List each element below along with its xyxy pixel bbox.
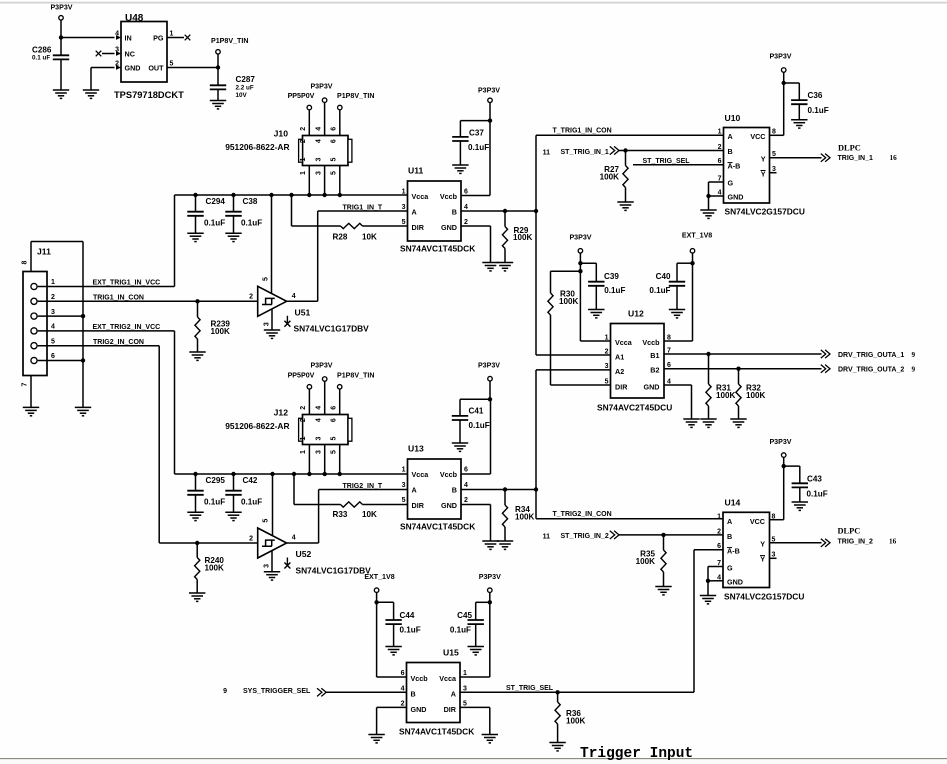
svg-text:SN74LVC1G17DBV: SN74LVC1G17DBV	[296, 565, 372, 575]
wire R29 bottom lead	[504, 249, 506, 263]
svg-text:100K: 100K	[600, 173, 620, 182]
wire P3P3V stem above U14	[783, 458, 785, 467]
wire P3P3V to U12.Vcca	[579, 253, 581, 341]
page bottom border	[0, 758, 947, 760]
svg-text:TRIG2_IN_CON: TRIG2_IN_CON	[93, 339, 144, 346]
junction R36 on ST_TRIG_SEL	[555, 690, 559, 694]
svg-text:5: 5	[402, 219, 406, 226]
svg-text:9: 9	[223, 688, 227, 695]
svg-text:1: 1	[300, 437, 307, 441]
wire T_TRIG1_IN_CON riser to U12.A1	[535, 135, 537, 355]
wire U12.A2 stub	[536, 369, 611, 371]
wire U14.VCC stub	[770, 519, 784, 521]
svg-text:6: 6	[331, 418, 338, 422]
svg-text:6: 6	[331, 406, 338, 410]
svg-text:Vcca: Vcca	[615, 338, 633, 347]
power symbol P3P3V above U12	[578, 249, 583, 254]
wire TRIG2_IN_CON horizontal	[38, 345, 160, 347]
wire C287 to ground	[217, 90, 219, 101]
ground under C42	[225, 512, 241, 520]
junction R28 riser on bus	[289, 193, 293, 197]
svg-text:5: 5	[51, 338, 55, 345]
svg-text:A1: A1	[615, 352, 624, 361]
junction C42 on bus	[231, 472, 235, 476]
buffer U52 triangle	[258, 528, 287, 558]
svg-text:3: 3	[264, 322, 271, 326]
wire PP5P0V to J12.2	[308, 389, 310, 414]
svg-text:5: 5	[331, 158, 338, 162]
svg-text:4: 4	[292, 293, 296, 300]
svg-text:2: 2	[300, 418, 307, 422]
wire TRIG2_IN_T horizontal	[319, 489, 408, 491]
svg-text:G: G	[728, 179, 734, 188]
wire U12.Vccb stub	[664, 340, 693, 342]
wire U48.GND down	[90, 68, 92, 91]
no-connect X on U52	[284, 558, 290, 569]
capacitor C37	[452, 137, 468, 141]
svg-text:1: 1	[300, 158, 307, 162]
schmitt symbol U51	[262, 298, 275, 304]
capacitor C287	[210, 85, 226, 89]
wire R240 top lead	[196, 543, 198, 558]
pin circle 3 J11	[31, 313, 37, 319]
junction J10 pin 5 on bus	[338, 193, 342, 197]
capacitor C38	[225, 212, 241, 216]
wire U15.Vccb stub	[377, 676, 407, 678]
svg-text:100K: 100K	[566, 717, 586, 726]
connector J12 body	[299, 415, 352, 445]
ground under R240	[189, 593, 205, 601]
junction R32 on B2	[736, 367, 740, 371]
wire TRIG1_IN_T riser	[317, 211, 319, 301]
wire P3P3V stem	[60, 20, 62, 37]
svg-text:DIR: DIR	[412, 501, 425, 510]
junction C295 on bus	[193, 472, 197, 476]
regulator U48 body	[121, 22, 167, 83]
svg-text:0.1uF: 0.1uF	[450, 626, 471, 635]
svg-text:PP5P0V: PP5P0V	[288, 92, 315, 100]
svg-text:2: 2	[300, 406, 307, 410]
svg-text:P3P3V: P3P3V	[569, 233, 591, 241]
svg-text:6: 6	[331, 127, 338, 131]
wire J11 pin3 to ground riser	[38, 315, 83, 317]
junction R239 on TRIG1_IN_CON	[195, 299, 199, 303]
power symbol P3P3V above U15	[488, 588, 493, 593]
wire U14.G to GND	[707, 567, 709, 581]
wire EXT_TRIG1_IN_VCC riser	[174, 195, 176, 287]
wire C295 to ground	[195, 495, 197, 512]
svg-text:DIR: DIR	[444, 705, 457, 714]
svg-text:TRIG1_IN_CON: TRIG1_IN_CON	[93, 294, 144, 301]
svg-text:ST_TRIG_SEL: ST_TRIG_SEL	[643, 158, 691, 165]
wire U12.A1 stub	[536, 354, 611, 356]
svg-text:0.1uF: 0.1uF	[241, 219, 262, 228]
wire C45 to ground	[475, 624, 477, 646]
svg-text:GND: GND	[125, 64, 141, 73]
wire P1P8V_TIN to J12.6	[339, 389, 341, 414]
svg-text:SYS_TRIGGER_SEL: SYS_TRIGGER_SEL	[243, 688, 311, 695]
svg-text:P3P3V: P3P3V	[478, 87, 500, 95]
svg-text:100K: 100K	[746, 391, 766, 400]
wire T_TRIG2_IN_CON riser	[535, 370, 537, 519]
wire P3P3V stem to junction C41	[489, 381, 491, 399]
svg-text:1: 1	[402, 188, 406, 195]
capacitor C36	[791, 100, 807, 104]
wire T_TRIG2_IN_CON	[536, 518, 723, 520]
wire R27 bottom lead	[625, 188, 627, 203]
ground under C295	[187, 512, 203, 520]
junction U52 pin5 on bus	[270, 472, 274, 476]
svg-text:5: 5	[331, 437, 338, 441]
pin circle 4 J11	[31, 328, 37, 334]
ground under U51	[264, 330, 280, 338]
wire R30 lead to DIR pin	[551, 384, 611, 386]
svg-text:Y: Y	[761, 154, 766, 163]
junction T_TRIG1_IN_CON riser	[534, 209, 538, 213]
wire SYS_TRIGGER_SEL to U15.B	[326, 691, 406, 693]
overline on A-B U10	[728, 162, 733, 164]
junction P1P8V_TIN/C287	[216, 65, 220, 69]
svg-text:5: 5	[605, 378, 609, 385]
wire U48.OUT to P1P8V_TIN	[167, 67, 218, 69]
power symbol P1P8V_TIN above J12	[337, 385, 342, 390]
page top border	[0, 2, 947, 4]
wire to C40	[677, 262, 693, 264]
wire bus to U52 pin5	[272, 474, 274, 536]
svg-text:C41: C41	[469, 407, 484, 416]
wire U51 output	[287, 300, 318, 302]
svg-text:Trigger Input: Trigger Input	[580, 746, 693, 762]
junction U51 pin5 on bus	[269, 193, 273, 197]
svg-text:C40: C40	[656, 272, 671, 281]
junction C38 on bus	[231, 193, 235, 197]
ground under R32	[730, 419, 746, 427]
svg-text:Vcca: Vcca	[412, 470, 430, 479]
wire U10.G to GND	[708, 182, 710, 196]
svg-text:10K: 10K	[362, 233, 377, 242]
wire C43 to ground	[799, 488, 801, 503]
svg-text:5: 5	[331, 171, 338, 175]
svg-text:A: A	[727, 517, 732, 526]
wire U11.B to riser	[461, 210, 536, 212]
svg-text:ST_TRIG_IN_2: ST_TRIG_IN_2	[561, 533, 609, 540]
pin arrow U48.GND	[116, 65, 121, 70]
schmitt symbol U52	[262, 540, 275, 546]
svg-text:C37: C37	[469, 129, 484, 138]
svg-text:C44: C44	[400, 611, 415, 620]
svg-text:3: 3	[402, 204, 406, 211]
svg-text:16: 16	[889, 538, 897, 546]
IC U15 body	[407, 663, 461, 723]
wire R36 top lead	[557, 692, 559, 702]
capacitor C41	[452, 416, 468, 420]
ground under U15.DIR	[482, 735, 498, 743]
wire J11 ground riser	[82, 242, 84, 408]
ground under U13.GND	[482, 541, 498, 549]
overline on Ybar U10	[761, 170, 766, 172]
svg-text:4: 4	[401, 685, 405, 692]
wire U13.Vccb stub	[461, 473, 491, 475]
junction C40 tap	[690, 261, 694, 265]
wire C294 to ground	[195, 216, 197, 233]
wire C41 top lead	[459, 399, 461, 416]
svg-text:DRV_TRIG_OUTA_2: DRV_TRIG_OUTA_2	[838, 367, 904, 374]
svg-text:J12: J12	[274, 408, 289, 418]
svg-text:3: 3	[315, 171, 322, 175]
ground under U52	[264, 572, 280, 580]
wire R240 bottom lead	[196, 580, 198, 594]
no-connect X on U48.NC	[96, 51, 102, 57]
svg-text:0.1uF: 0.1uF	[241, 498, 262, 507]
wire U10.Ybar stub	[770, 172, 777, 174]
junction C39 tap	[578, 261, 582, 265]
resistor R33	[341, 502, 363, 507]
svg-text:DRV_TRIG_OUTA_1: DRV_TRIG_OUTA_1	[838, 352, 904, 359]
svg-text:B: B	[727, 532, 732, 541]
junction C44 tap	[374, 600, 378, 604]
ground under C43	[792, 502, 808, 510]
wire ST_TRIG_SEL from U15.A	[460, 691, 694, 693]
wire U12.B2 to DRV_TRIG_OUTA_2	[664, 368, 822, 370]
svg-text:P3P3V: P3P3V	[769, 438, 791, 446]
svg-text:7: 7	[22, 382, 29, 386]
junction U10.G/GND	[706, 194, 710, 198]
svg-text:0.1uF: 0.1uF	[204, 498, 225, 507]
wire U52 pin3 to ground	[271, 551, 273, 572]
ground under R36	[549, 743, 565, 751]
svg-text:SN74LVC2G157DCU: SN74LVC2G157DCU	[725, 207, 805, 217]
svg-text:6: 6	[667, 362, 671, 369]
svg-text:1: 1	[463, 670, 467, 677]
svg-text:A2: A2	[615, 367, 624, 376]
junction T_TRIG2 riser / U13.B	[534, 487, 538, 491]
wire EXT_TRIG1_IN_VCC	[38, 286, 175, 288]
junction J11 pin3	[81, 314, 85, 318]
wire C42 to ground	[233, 495, 235, 512]
wire C37 to ground	[459, 141, 461, 165]
svg-text:16: 16	[890, 154, 898, 162]
svg-text:C42: C42	[243, 476, 258, 485]
power symbol P3P3V above J10	[322, 98, 327, 103]
power symbol P1P8V_TIN above J10	[338, 105, 343, 110]
wire J10 pin 3 to bus	[324, 166, 326, 196]
svg-text:T_TRIG1_IN_CON: T_TRIG1_IN_CON	[553, 128, 612, 135]
svg-text:0.1uF: 0.1uF	[400, 626, 421, 635]
wire to C287	[217, 68, 219, 86]
overline on A-B U14	[727, 547, 732, 549]
wire EXT_1V8 to U12.Vccb	[692, 253, 694, 341]
svg-text:P3P3V: P3P3V	[478, 361, 500, 369]
svg-text:B: B	[452, 207, 457, 216]
pin arrow U48.IN	[116, 35, 121, 40]
ground under R239	[189, 352, 205, 360]
svg-text:11: 11	[543, 533, 551, 540]
svg-text:6: 6	[401, 670, 405, 677]
ground under U14	[700, 596, 716, 604]
svg-text:P3P3V: P3P3V	[310, 362, 332, 370]
ground under R34	[497, 541, 513, 549]
resistor R28	[341, 223, 363, 228]
wire J11 pin6 to ground riser	[38, 360, 83, 362]
svg-text:100K: 100K	[205, 564, 225, 573]
no-connect X on U51	[284, 316, 290, 327]
power symbol EXT_1V8 above U15	[374, 588, 379, 593]
svg-text:C43: C43	[807, 475, 822, 484]
wire C44 to ground	[393, 624, 395, 646]
wire U15.GND down	[376, 707, 378, 734]
no-connect X on U48.PG	[185, 35, 191, 41]
svg-text:P1P8V_TIN: P1P8V_TIN	[211, 37, 248, 45]
wire bus EXT_TRIG2_IN_VCC	[175, 473, 408, 475]
wire J12 pin 5 to bus	[339, 445, 341, 475]
wire EXT_1V8 to U15.Vccb	[376, 593, 378, 677]
junction J12 pin 1 on bus	[307, 472, 311, 476]
resistor R29	[502, 227, 507, 249]
svg-text:4: 4	[316, 406, 323, 410]
wire to U48 IN	[61, 37, 115, 39]
junction J10 pin 3 on bus	[322, 193, 326, 197]
pin circle 1 J11	[31, 283, 37, 289]
junction P3P3V/C286/U48.IN	[59, 35, 63, 39]
wire U10.GND down	[708, 196, 710, 210]
svg-text:1: 1	[717, 514, 721, 521]
wire TRIG2_IN_T riser	[318, 490, 320, 544]
svg-text:3: 3	[605, 363, 609, 370]
ground under R31	[700, 419, 716, 427]
power symbol PP5P0V J12	[307, 385, 312, 390]
svg-text:U13: U13	[408, 444, 424, 454]
ground under C41	[452, 443, 468, 451]
wire P1P8V_TIN stem	[217, 54, 219, 67]
svg-text:P3P3V: P3P3V	[769, 53, 791, 61]
power symbol P3P3V above J12	[322, 377, 327, 382]
svg-text:GND: GND	[411, 705, 427, 714]
svg-text:SN74AVC1T45DCK: SN74AVC1T45DCK	[400, 244, 475, 254]
off-page connector DRV_TRIG_OUTA_2	[821, 365, 830, 373]
wire PP5P0V to J10.2	[308, 110, 310, 136]
wire EXT_TRIG2_IN_VCC	[38, 330, 175, 332]
wire J11 pin8 to ground riser	[31, 241, 83, 243]
junction J12 pin 5 on bus	[338, 472, 342, 476]
wire P3P3V to J10.4	[324, 103, 326, 136]
ground under C294	[187, 233, 203, 241]
svg-text:C286: C286	[32, 45, 52, 54]
IC U11 body	[408, 181, 462, 241]
wire J11 pin8 stub	[30, 242, 32, 272]
ground under C36	[791, 120, 807, 128]
wire J12 pin 1 to bus	[308, 445, 310, 475]
svg-text:3: 3	[316, 437, 323, 441]
wire U14.Y to DLPC	[770, 542, 822, 544]
wire ST_TRIG_SEL stub to U10	[633, 164, 724, 166]
wire to C41	[460, 398, 490, 400]
IC U14 body	[723, 512, 770, 587]
power symbol P3P3V above U10	[781, 68, 786, 73]
wire C37 top lead	[459, 121, 461, 137]
svg-text:GND: GND	[728, 193, 744, 202]
svg-text:4: 4	[315, 127, 322, 131]
off-page connector ST_TRIG_IN_1	[610, 146, 619, 154]
wire U15.Vcca stub	[460, 676, 490, 678]
svg-text:2: 2	[464, 497, 468, 504]
wire R30 top lead	[550, 271, 552, 293]
wire R31 top lead	[708, 354, 710, 384]
wire U10.VCC stub	[770, 134, 784, 136]
wire P3P3V to J12.4	[324, 381, 326, 414]
svg-text:B1: B1	[650, 351, 659, 360]
capacitor C42	[225, 491, 241, 495]
svg-text:P3P3V: P3P3V	[50, 4, 72, 12]
wire C39 top lead	[595, 263, 597, 282]
ground under U15.GND	[368, 735, 384, 743]
svg-text:U51: U51	[295, 308, 311, 318]
junction P3P3V/C36/U10.VCC	[782, 81, 786, 85]
wire R30 to U12.DIR	[550, 315, 552, 385]
svg-text:P3P3V: P3P3V	[310, 83, 332, 91]
svg-text:A: A	[412, 485, 417, 494]
svg-text:6: 6	[464, 188, 468, 195]
wire J10 pin 1 to bus	[308, 166, 310, 196]
svg-text:A: A	[451, 689, 456, 698]
wire R34 bottom lead	[504, 527, 506, 541]
svg-text:11: 11	[543, 150, 551, 157]
wire R35 top lead	[663, 535, 665, 550]
svg-text:P3P3V: P3P3V	[479, 573, 501, 581]
capacitor C43	[792, 483, 808, 487]
wire R32 top lead	[738, 369, 740, 384]
wire J10 pin 5 to bus	[339, 166, 341, 196]
wire Vccb riser to P3P3V C41	[490, 399, 492, 474]
svg-text:100K: 100K	[716, 391, 736, 400]
svg-text:4: 4	[51, 324, 55, 331]
power symbol EXT_1V8 above U12	[690, 249, 695, 254]
svg-text:2: 2	[718, 144, 722, 151]
svg-text:B2: B2	[650, 366, 659, 375]
wire R27 top lead	[625, 151, 627, 166]
svg-text:J10: J10	[274, 129, 289, 139]
svg-text:2: 2	[401, 700, 405, 707]
ground under C37	[452, 165, 468, 173]
wire R34 top lead	[504, 490, 506, 506]
svg-text:R28: R28	[333, 233, 348, 242]
wire C44 top lead	[393, 602, 395, 620]
svg-text:4: 4	[464, 482, 468, 489]
svg-text:0.1uF: 0.1uF	[807, 490, 828, 499]
svg-text:U14: U14	[725, 498, 741, 508]
svg-text:0.1uF: 0.1uF	[469, 421, 490, 430]
buffer U51 triangle	[258, 286, 287, 316]
wire C36 to ground	[798, 104, 800, 119]
off-page connector SYS_TRIGGER_SEL	[317, 688, 326, 696]
wire U15.DIR down	[489, 707, 491, 734]
wire P3P3V stem to junction	[489, 103, 491, 121]
wire R33 left lead	[294, 504, 341, 506]
svg-text:2: 2	[249, 294, 253, 301]
wire U14.GND stub	[708, 580, 723, 582]
wire U13.B to riser	[461, 489, 536, 491]
resistor R27	[623, 166, 628, 188]
wire T_TRIG1_IN_CON	[536, 134, 724, 136]
ground under R35	[655, 587, 671, 595]
svg-text:0.1uF: 0.1uF	[808, 106, 829, 115]
svg-text:PP5P0V: PP5P0V	[288, 372, 315, 380]
svg-text:DLPC: DLPC	[838, 527, 861, 536]
wire TRIG2_IN_CON riser	[158, 346, 160, 543]
svg-text:C36: C36	[808, 91, 823, 100]
wire R28 left lead	[292, 225, 341, 227]
svg-text:VCC: VCC	[750, 132, 765, 141]
svg-text:GND: GND	[727, 578, 743, 587]
